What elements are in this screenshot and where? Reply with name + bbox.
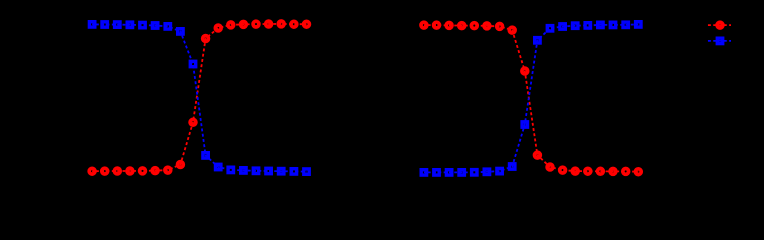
right plot: red series dashed line bbox=[424, 25, 638, 172]
right plot: red series open-circle markers bbox=[421, 22, 641, 174]
left plot: blue series dashed line bbox=[92, 24, 306, 171]
right plot: blue series dashed line bbox=[424, 24, 638, 172]
legend: blue entry square marker bbox=[717, 38, 722, 43]
legend: blue entry dashed line bbox=[706, 40, 731, 42]
left plot: red series open-circle markers bbox=[89, 21, 309, 174]
left plot: blue series open-square markers bbox=[89, 22, 309, 175]
right plot: blue series open-square markers bbox=[421, 22, 641, 175]
legend: red entry circle marker bbox=[717, 22, 723, 28]
legend: red entry dashed line bbox=[706, 24, 731, 26]
left plot: red series dashed line bbox=[92, 24, 306, 171]
